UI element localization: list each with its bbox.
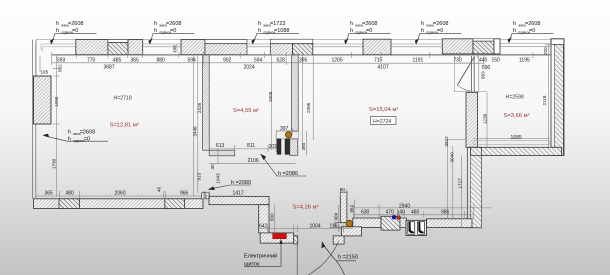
svg-text:3446: 3446 [193,126,198,137]
right room door swing arc [457,85,470,91]
annotation A2 [148,21,194,45]
pier P1 770 [76,40,108,55]
1685 dim [473,138,549,140]
svg-text:913: 913 [197,172,202,180]
pier P2 485 dense [108,42,128,54]
svg-text:2118: 2118 [542,95,547,105]
svg-text:h: h [154,21,157,27]
partition room1/room2 [203,55,210,151]
svg-text:h: h [154,28,157,34]
door jamb bars [277,139,281,155]
ventilation box [406,220,426,235]
step hatch A [341,227,361,236]
svg-text:H=2718: H=2718 [114,96,132,102]
svg-text:203: 203 [269,144,278,150]
svg-text:642: 642 [259,223,268,229]
svg-text:3922: 3922 [444,136,449,147]
pier P3 365 [128,40,143,55]
svg-text:h: h [258,21,261,27]
svg-text:450: 450 [301,142,306,150]
svg-text:S=15,04 м²: S=15,04 м² [369,107,398,113]
outer contour left [33,40,36,199]
h=2150 callout with curved leader [309,241,359,275]
svg-text:h: h [56,21,59,27]
pier P4 594 [181,40,205,55]
90 dim [340,189,349,197]
window W5 sill lines [500,44,551,47]
right room top inner face line [454,56,487,92]
svg-text:770: 770 [87,58,96,64]
svg-text:1417: 1417 [233,191,244,197]
svg-text:h: h [350,28,353,34]
pier P6 395 dense [293,44,313,55]
svg-text:=0: =0 [366,28,372,34]
left window niche [34,76,52,124]
corridor low dim row [260,225,353,232]
right room door frame [471,56,474,92]
svg-text:=0: =0 [437,28,443,34]
window W1 sill lines [143,44,181,47]
corridor bottom wall left part [353,218,381,228]
svg-text:=2608: =2608 [433,21,448,27]
397 dim line [276,128,298,134]
svg-text:715: 715 [374,58,383,64]
svg-text:2940: 2940 [399,203,410,209]
svg-text:h: h [350,21,353,27]
svg-text:2060: 2060 [115,191,126,197]
1727 line hooks [447,140,482,229]
svg-text:1195: 1195 [519,58,530,64]
right room bottom wall [470,147,561,155]
svg-text:880: 880 [157,58,166,64]
svg-text:30: 30 [210,164,215,170]
h=2086 callout [260,154,306,177]
svg-text:h: h [513,28,516,34]
right room left wall [466,92,478,147]
svg-text:h: h [258,28,261,34]
svg-text:H=2598: H=2598 [506,95,524,101]
right room door leaf [457,57,474,85]
annotation A6 [508,21,554,43]
inner contour corner room1 [41,44,76,52]
pier P10 150 [494,39,500,54]
door opening jamb line [296,244,298,275]
svg-text:2106: 2106 [248,158,259,164]
svg-text:=2608: =2608 [525,21,540,27]
svg-text:2396: 2396 [306,102,311,113]
balcony block 902 strip [205,40,247,44]
svg-text:986: 986 [441,210,450,216]
annotation A3 [251,21,299,45]
window annotations top [42,21,553,275]
room2 bottom dim line [209,131,295,164]
svg-text:1685: 1685 [511,135,522,141]
830 909 562 dims [275,200,355,233]
svg-text:H=2724: H=2724 [373,119,391,125]
right room door dims [479,56,487,147]
corridor right vertical dims [447,140,461,229]
annotation A4 [344,21,390,45]
svg-text:h: h [421,28,424,34]
svg-text:909: 909 [334,212,339,220]
step hatch B [333,236,344,244]
annotation A1 [50,21,97,45]
partition left dim lines [193,55,197,196]
svg-text:830: 830 [270,213,275,221]
svg-text:S=12,81 м²: S=12,81 м² [110,123,139,129]
corridor bottom wall right part [426,219,472,228]
svg-text:h: h [513,21,516,27]
svg-text:502: 502 [58,64,63,72]
electrical panel red [273,234,287,239]
svg-text:480: 480 [411,210,420,216]
svg-text:883: 883 [481,71,486,79]
svg-text:1191: 1191 [413,58,424,64]
svg-text:=2608: =2608 [362,21,377,27]
step pier vertical [340,192,347,223]
svg-text:1004: 1004 [310,223,321,229]
svg-text:365: 365 [45,191,54,197]
svg-text:=0: =0 [170,28,176,34]
svg-text:730: 730 [454,58,463,64]
pier P7 715 [363,39,391,55]
svg-text:966: 966 [180,191,189,197]
svg-text:1236: 1236 [483,113,488,124]
corridor right wall [467,147,481,227]
svg-text:630: 630 [361,210,370,216]
svg-text:1790: 1790 [52,158,57,169]
notch opening [201,193,209,199]
red dot [397,216,401,220]
dimension texts [41,45,549,229]
svg-text:4107: 4107 [378,65,389,71]
top wall bottom face [52,54,551,56]
top dim line row2 totals [52,62,474,64]
svg-text:=0: =0 [529,28,535,34]
window 190 depth dim [176,44,178,53]
svg-text:397: 397 [280,126,289,132]
corridor bottom dense pier [381,216,400,230]
svg-text:613: 613 [216,143,225,149]
svg-text:Електричний: Електричний [244,253,277,260]
window 2024 lines [247,44,270,47]
svg-text:S=4,26 м²: S=4,26 м² [293,205,319,211]
lower wall with panel [260,233,294,243]
window W3 sill lines [313,44,363,47]
svg-text:h =2150: h =2150 [338,255,358,261]
590 sub dim [460,62,484,64]
electrical panel label [244,239,283,268]
svg-text:562: 562 [349,204,354,212]
wall end block [294,236,298,244]
svg-text:=0: =0 [72,28,78,34]
h=2080 callout [208,180,251,190]
dimension lines [36,44,552,233]
annotation A7 left window [42,130,108,143]
svg-text:593: 593 [57,58,66,64]
dense pier bottom B [165,199,185,209]
right wall top cap [551,39,564,45]
top dim ticks [52,52,533,66]
long bottom wall right part [209,196,269,204]
dense pier bottom A [59,199,80,209]
svg-text:2008: 2008 [268,91,273,102]
svg-text:1200: 1200 [54,96,59,107]
partition room2/room3 [292,55,299,132]
partition stub bottom room2 [209,150,235,156]
pier P8 730 [442,39,473,54]
svg-text:594: 594 [188,58,197,64]
H=2724 box [371,117,397,125]
svg-text:440: 440 [479,58,488,64]
long bottom wall left [34,199,204,209]
door knob room2 [285,132,291,138]
window W4 sill lines [391,44,442,47]
svg-text:1043: 1043 [216,173,221,184]
svg-text:1205: 1205 [332,58,343,64]
svg-text:594: 594 [254,58,263,64]
svg-text:=2608: =2608 [166,21,181,27]
annotation A5 [415,21,462,45]
outer contour top wall [36,39,564,41]
bottom-left dim row [36,191,245,199]
svg-text:365: 365 [131,58,140,64]
svg-text:S=4,55 м²: S=4,55 м² [233,108,259,114]
450 dim [305,131,307,155]
svg-text:1727: 1727 [458,178,463,189]
svg-text:107: 107 [203,191,208,199]
svg-text:195: 195 [41,70,49,75]
svg-text:200: 200 [543,47,548,55]
door knob corridor [346,220,353,227]
svg-text:2426: 2426 [197,102,202,113]
room labels [110,95,530,211]
svg-text:395: 395 [299,58,308,64]
svg-text:902: 902 [223,58,232,64]
svg-text:140: 140 [397,210,406,216]
svg-text:S=3,66 м²: S=3,66 м² [504,113,530,119]
svg-text:щиток: щиток [244,262,260,268]
corridor bottom wall mid [400,218,406,228]
right room inner floor lines [473,141,549,145]
left vertical dim chain [40,55,60,196]
svg-text:=2608: =2608 [80,130,95,136]
corridor top dims [353,205,492,219]
svg-text:=1088: =1088 [274,28,289,34]
top dim line row1 [52,54,551,56]
svg-text:3040: 3040 [450,152,455,163]
door niche room2 [276,131,298,139]
svg-text:46: 46 [157,186,162,192]
2118 / 200 dim [545,45,552,148]
partition stub below door [290,139,298,155]
svg-text:470: 470 [386,210,395,216]
svg-text:2024: 2024 [244,65,255,71]
wall connector down [259,205,269,233]
step niche white [335,223,353,228]
svg-text:h: h [56,28,59,34]
svg-text:=2608: =2608 [68,21,83,27]
svg-text:150: 150 [492,58,501,64]
svg-text:811: 811 [247,143,255,149]
svg-text:h: h [68,130,71,136]
blue dot [392,215,396,219]
svg-text:528: 528 [277,58,286,64]
pier P9 440 dense [473,41,494,54]
svg-text:h: h [421,21,424,27]
pier P5 528 with strip [270,39,313,44]
svg-text:485: 485 [113,58,122,64]
svg-text:116: 116 [330,223,338,229]
svg-text:590: 590 [482,65,491,71]
svg-text:=1723: =1723 [270,21,285,27]
right wall [551,39,564,156]
svg-text:480: 480 [66,191,75,197]
svg-text:90: 90 [340,187,346,192]
svg-text:190: 190 [172,45,177,53]
room2 vertical dims [272,55,314,150]
svg-text:3687: 3687 [104,65,115,71]
